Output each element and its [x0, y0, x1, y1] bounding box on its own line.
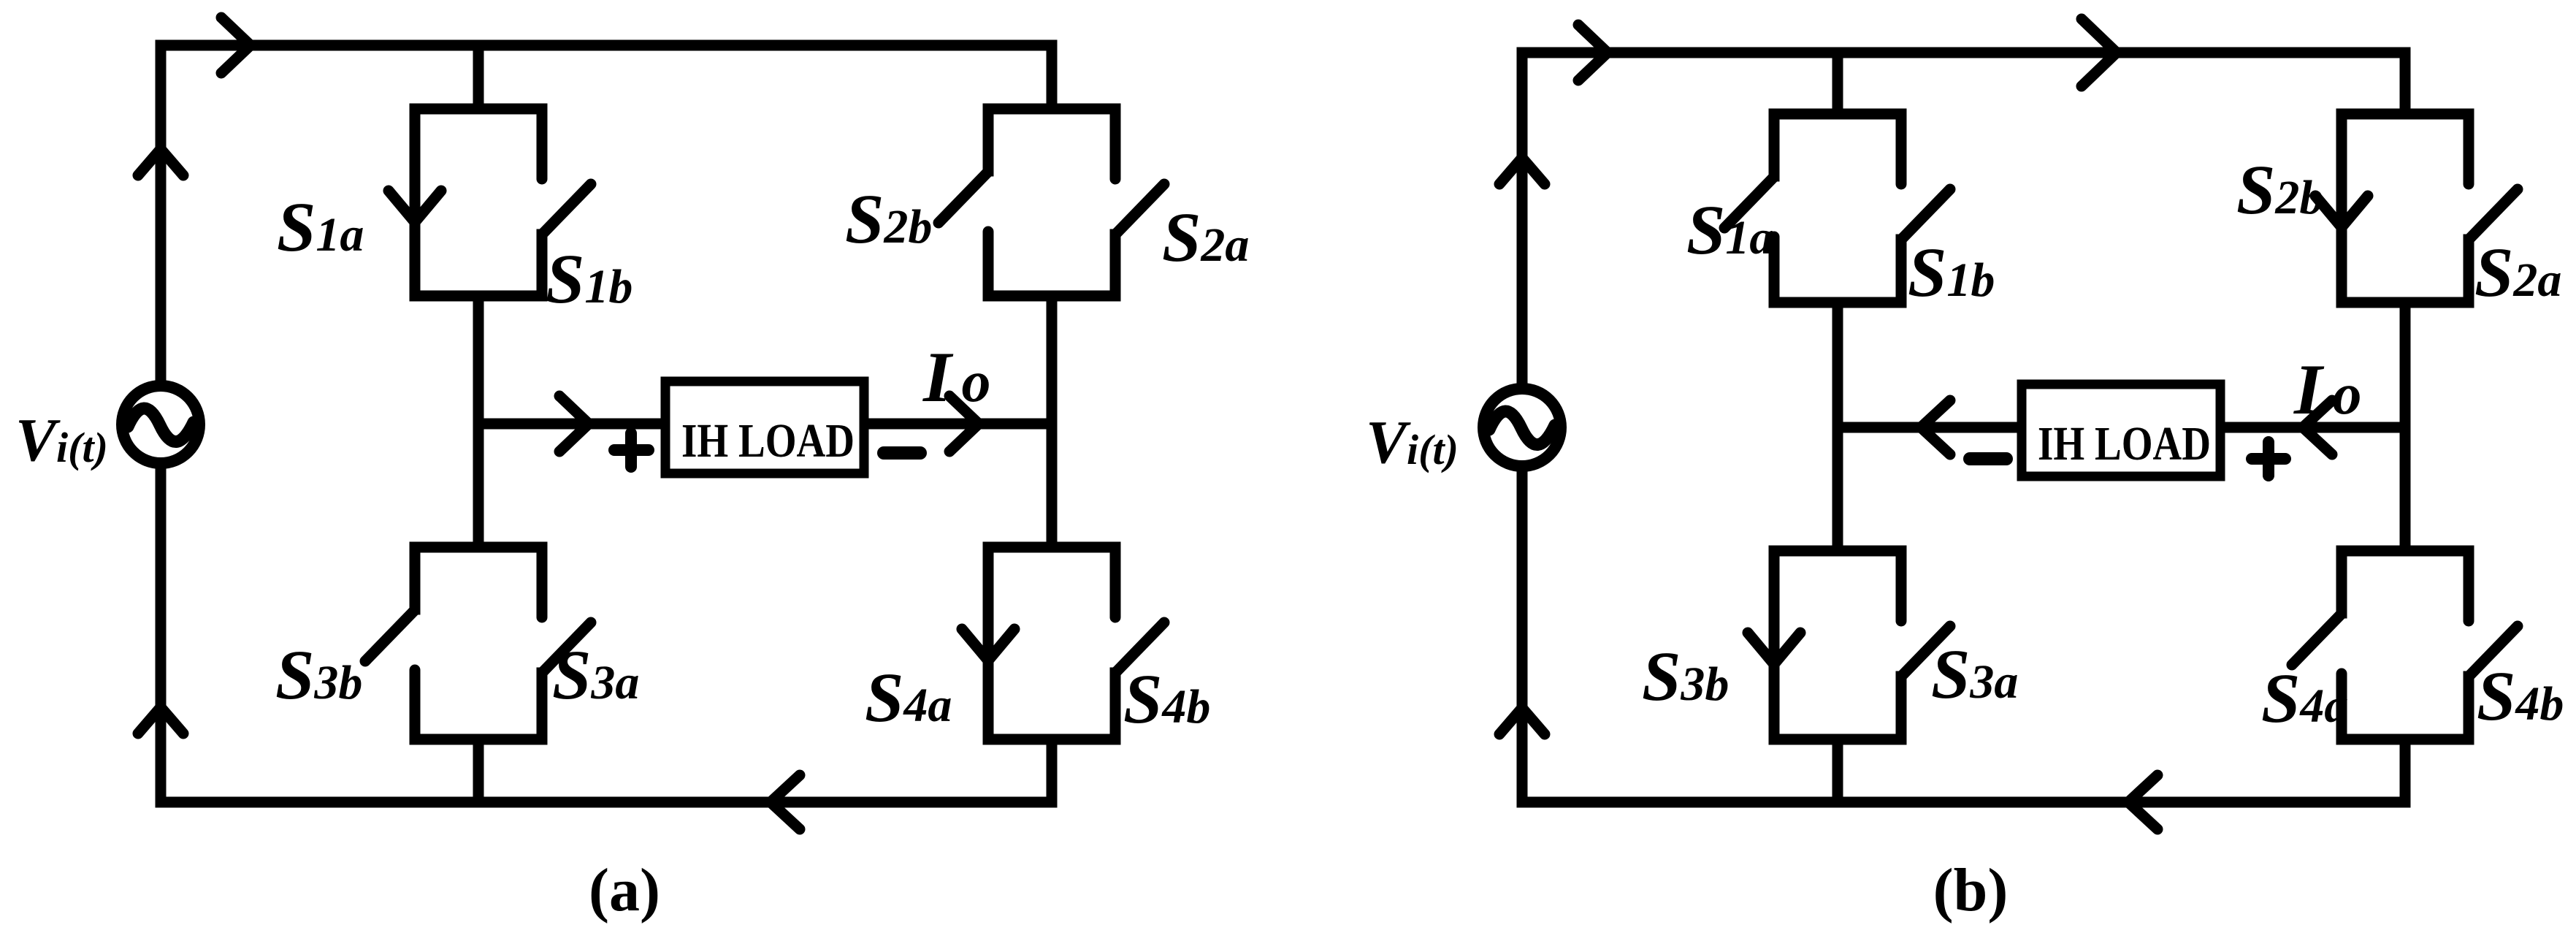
svg-text:IH LOAD: IH LOAD — [2038, 417, 2211, 470]
svg-text:(b): (b) — [1933, 856, 2009, 924]
svg-text:IH LOAD: IH LOAD — [681, 414, 855, 468]
svg-text:(a): (a) — [589, 856, 660, 924]
